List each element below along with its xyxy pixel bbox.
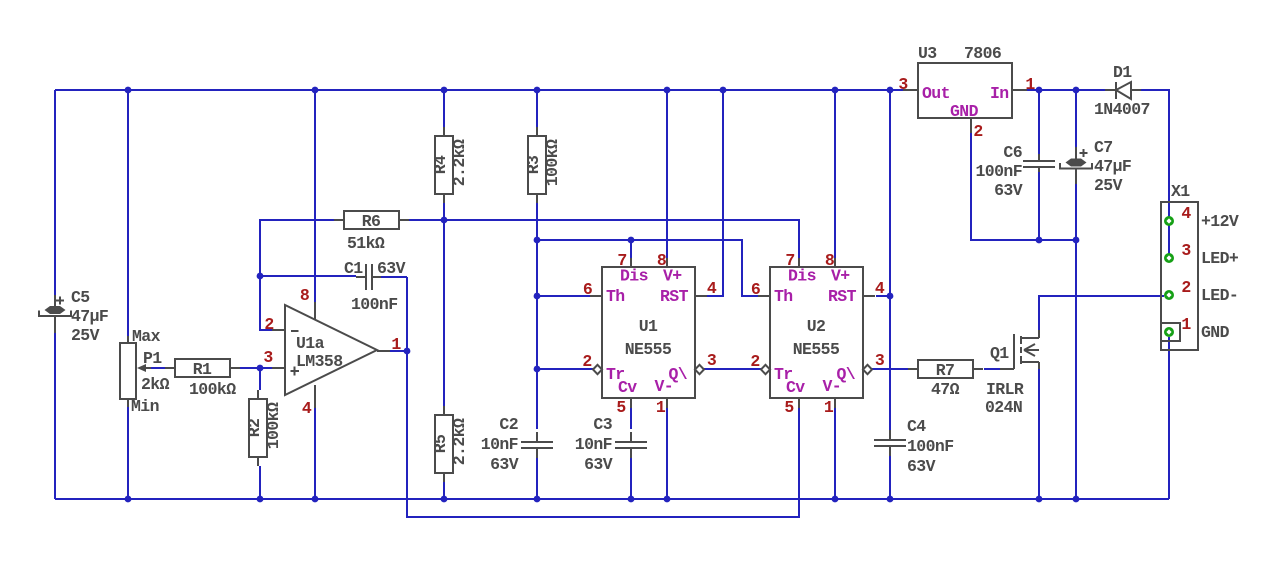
svg-text:U1: U1 [639, 317, 658, 336]
svg-text:8: 8 [300, 286, 310, 305]
svg-text:100nF: 100nF [975, 162, 1022, 181]
wire node to U2 TH [537, 240, 758, 296]
wire U1 V- to ground [666, 408, 668, 499]
wire node220 R6/R4 to U2 DIS [408, 220, 799, 258]
wire rail to op-amp V+ [314, 90, 316, 302]
capacitor C5 [39, 288, 108, 345]
wire R4 to R5 [443, 202, 445, 406]
svg-text:4: 4 [1181, 204, 1191, 223]
svg-text:3: 3 [1181, 241, 1191, 260]
svg-text:3: 3 [707, 351, 717, 370]
svg-text:63V: 63V [994, 181, 1023, 200]
svg-text:U3: U3 [918, 44, 937, 63]
wire U2 RST to node [876, 295, 890, 297]
capacitor C3 [575, 415, 647, 474]
wire R3 down to C2 [536, 202, 538, 429]
resistor R4 [431, 127, 469, 203]
svg-text:100kΩ: 100kΩ [189, 380, 236, 399]
svg-text:Q1: Q1 [990, 344, 1009, 363]
timer U2 NE555 [750, 251, 885, 417]
svg-text:1: 1 [391, 335, 401, 354]
svg-text:R3: R3 [524, 155, 543, 174]
wire rail to P1 top [127, 90, 129, 336]
svg-text:NE555: NE555 [625, 340, 672, 359]
wire C1 right lead [381, 276, 407, 278]
svg-text:RST: RST [828, 287, 857, 306]
wire ground bottom rail [55, 498, 1169, 500]
svg-text:2: 2 [1181, 278, 1190, 297]
wire C6 bottom to GND bus [1038, 172, 1040, 240]
svg-text:R6: R6 [362, 212, 381, 231]
resistor R3 [524, 127, 562, 203]
svg-text:Th: Th [774, 287, 793, 306]
svg-text:10nF: 10nF [575, 435, 612, 454]
svg-text:D1: D1 [1113, 63, 1132, 82]
svg-text:LED-: LED- [1201, 286, 1238, 305]
svg-text:Cv: Cv [618, 378, 637, 397]
wire U2 V- to ground [834, 408, 836, 499]
wire C1 right to output [406, 277, 408, 351]
wire C2 to ground [536, 455, 538, 499]
svg-text:3: 3 [898, 75, 908, 94]
wire C3 to ground [630, 455, 632, 499]
wire R5 to ground [443, 482, 445, 499]
wire node to U1 TR [537, 368, 594, 370]
wire output to U2 CV [407, 351, 799, 517]
wire U1 CV to C3 [630, 408, 632, 429]
capacitor C7 [1060, 138, 1131, 195]
svg-text:C3: C3 [593, 415, 612, 434]
wire rail down to C4 [889, 90, 891, 430]
svg-text:8: 8 [657, 251, 667, 270]
svg-text:100nF: 100nF [907, 437, 954, 456]
svg-text:+12V: +12V [1201, 212, 1239, 231]
svg-text:C5: C5 [71, 288, 90, 307]
wire rail to R3 [536, 90, 538, 127]
svg-text:NE555: NE555 [793, 340, 840, 359]
svg-text:R4: R4 [431, 155, 450, 174]
svg-text:P1: P1 [143, 349, 162, 368]
svg-text:100nF: 100nF [351, 295, 398, 314]
capacitor C4 [874, 417, 954, 476]
wire P1 bottom to ground [127, 407, 129, 499]
svg-text:U1a: U1a [296, 334, 325, 353]
svg-text:51kΩ: 51kΩ [347, 234, 385, 253]
svg-text:C6: C6 [1003, 143, 1022, 162]
wire P1 wiper to R1 [151, 367, 165, 369]
wire C4 to ground [889, 453, 891, 499]
svg-text:63V: 63V [377, 259, 406, 278]
svg-text:2: 2 [264, 315, 273, 334]
wire op-amp output [390, 350, 407, 352]
svg-text:RST: RST [660, 287, 689, 306]
svg-text:2.2kΩ: 2.2kΩ [450, 139, 469, 186]
svg-text:5: 5 [784, 398, 794, 417]
svg-text:Max: Max [132, 327, 161, 346]
svg-text:7806: 7806 [964, 44, 1001, 63]
svg-text:LM358: LM358 [296, 352, 343, 371]
svg-text:4: 4 [302, 399, 312, 418]
svg-text:U2: U2 [807, 317, 826, 336]
wire Q1 drain to X1 LED- [1039, 296, 1164, 330]
junctions mid nodes [257, 217, 1080, 373]
capacitor C1 [344, 259, 406, 314]
timer U1 NE555 [582, 251, 717, 417]
wire to U1 DIS [630, 240, 632, 258]
svg-text:4: 4 [707, 279, 717, 298]
svg-text:Cv: Cv [786, 378, 805, 397]
wire U2 Q to R7 [871, 368, 909, 370]
svg-text:7: 7 [785, 251, 794, 270]
svg-text:63V: 63V [490, 455, 519, 474]
svg-text:R1: R1 [193, 360, 212, 379]
svg-text:Min: Min [131, 397, 159, 416]
svg-text:2: 2 [750, 352, 759, 371]
svg-text:1: 1 [656, 398, 666, 417]
op-amp U1a [263, 286, 401, 418]
capacitor C2 [481, 415, 553, 474]
svg-text:GND: GND [1201, 323, 1230, 342]
svg-text:4: 4 [875, 279, 885, 298]
wire R2 bottom to ground [259, 466, 261, 499]
svg-text:C1: C1 [344, 259, 363, 278]
wire U3 IN to D1 [1027, 89, 1105, 91]
svg-text:63V: 63V [584, 455, 613, 474]
svg-text:1: 1 [1181, 315, 1191, 334]
resistor R2 [245, 390, 283, 466]
wire R6 left to op-amp IN- [260, 220, 335, 330]
svg-text:Th: Th [606, 287, 625, 306]
wire D1 to X1 +12V [1141, 90, 1169, 258]
wire rail to U1 V+ [666, 90, 668, 258]
svg-text:3: 3 [875, 351, 885, 370]
resistor R5 [431, 406, 469, 482]
resistor R7 [908, 360, 983, 399]
svg-text:024N: 024N [985, 398, 1022, 417]
wire R1 to op-amp IN+ [240, 367, 272, 369]
wire op-amp V- to ground [314, 408, 316, 499]
svg-text:5: 5 [616, 398, 626, 417]
connector X1 [1161, 182, 1239, 350]
wire U3 GND bus [971, 133, 1076, 240]
svg-text:C4: C4 [907, 417, 926, 436]
svg-text:V-: V- [655, 377, 674, 396]
svg-text:R5: R5 [431, 434, 450, 453]
svg-text:2: 2 [582, 352, 591, 371]
svg-text:25V: 25V [71, 326, 100, 345]
junctions top rail [125, 87, 1080, 94]
svg-text:V-: V- [823, 377, 842, 396]
wire node to U1 TH [537, 295, 590, 297]
svg-text:In: In [990, 84, 1009, 103]
svg-text:100kΩ: 100kΩ [543, 139, 562, 186]
wire rail to C7 top [1075, 90, 1077, 147]
svg-text:6: 6 [751, 280, 760, 299]
svg-text:1: 1 [1025, 75, 1035, 94]
svg-text:8: 8 [825, 251, 835, 270]
wire +6V top rail [55, 89, 903, 91]
svg-text:100kΩ: 100kΩ [264, 402, 283, 449]
svg-text:47µF: 47µF [71, 307, 108, 326]
wire U1 Q to U2 TR [703, 368, 762, 370]
resistor R1 [165, 359, 240, 399]
svg-text:47µF: 47µF [1094, 157, 1131, 176]
svg-text:1N4007: 1N4007 [1094, 100, 1150, 119]
transistor Q1 IRLR024N [985, 330, 1039, 417]
svg-text:7: 7 [617, 251, 626, 270]
svg-text:3: 3 [263, 348, 273, 367]
svg-text:10nF: 10nF [481, 435, 518, 454]
svg-text:Out: Out [922, 84, 950, 103]
svg-text:R7: R7 [936, 361, 955, 380]
diode D1 1N4007 [1094, 63, 1150, 119]
wire C1 left lead [260, 275, 356, 277]
wire left rail to C5 [54, 90, 56, 295]
wire rail to C6 top [1038, 90, 1040, 155]
svg-text:63V: 63V [907, 457, 936, 476]
potentiometer P1 [120, 327, 170, 416]
wire C7 bottom to ground [1075, 184, 1077, 499]
svg-text:2.2kΩ: 2.2kΩ [450, 418, 469, 465]
wire X1 GND to ground rail [1168, 337, 1170, 499]
wire rail to U2 V+ [834, 90, 836, 258]
svg-text:C7: C7 [1094, 138, 1113, 157]
wire Q1 source to ground [1038, 369, 1040, 499]
svg-text:2: 2 [973, 122, 982, 141]
svg-text:X1: X1 [1171, 182, 1190, 201]
svg-text:25V: 25V [1094, 176, 1123, 195]
wire R7 to Q1 gate [984, 368, 1000, 370]
svg-text:6: 6 [583, 280, 592, 299]
svg-text:2kΩ: 2kΩ [141, 375, 170, 394]
wire node to R2 top [259, 368, 261, 390]
svg-text:1: 1 [824, 398, 834, 417]
regulator U3 7806 [898, 44, 1035, 141]
wire rail to U1 RST [707, 90, 723, 296]
svg-text:47Ω: 47Ω [931, 380, 960, 399]
svg-text:C2: C2 [499, 415, 518, 434]
wire rail to R4 [443, 90, 445, 127]
svg-text:R2: R2 [245, 419, 264, 438]
svg-text:LED+: LED+ [1201, 249, 1239, 268]
svg-text:GND: GND [950, 102, 979, 121]
capacitor C6 [975, 143, 1055, 200]
wire C5 to ground rail [54, 333, 56, 499]
svg-text:IRLR: IRLR [986, 380, 1024, 399]
junctions ground rail [125, 496, 1080, 503]
resistor R6 [334, 211, 409, 253]
